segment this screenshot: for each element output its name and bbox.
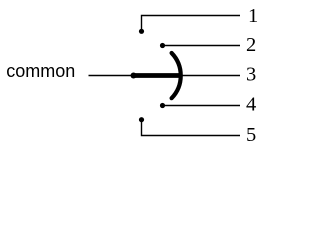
node common junction (131, 73, 137, 79)
node contact 5 (139, 117, 144, 122)
wire terminal 2 (163, 45, 241, 47)
node contact 1 (139, 29, 144, 34)
node contact 4 (160, 103, 165, 108)
switch SW1 wiper arc (172, 53, 181, 98)
wire terminal 3 (180, 75, 240, 77)
wire terminal 4 (163, 105, 241, 107)
svg-text:common: common (6, 61, 75, 81)
svg-text:4: 4 (246, 94, 256, 116)
svg-text:2: 2 (246, 34, 256, 56)
wire terminal 5 (142, 120, 241, 136)
node contact 2 (160, 43, 165, 48)
wire common lead (89, 75, 134, 77)
svg-text:1: 1 (248, 5, 258, 27)
wire terminal 1 (142, 16, 241, 32)
svg-text:5: 5 (246, 124, 256, 146)
switch SW1 wiper shaft (134, 73, 180, 78)
svg-text:3: 3 (246, 64, 256, 86)
